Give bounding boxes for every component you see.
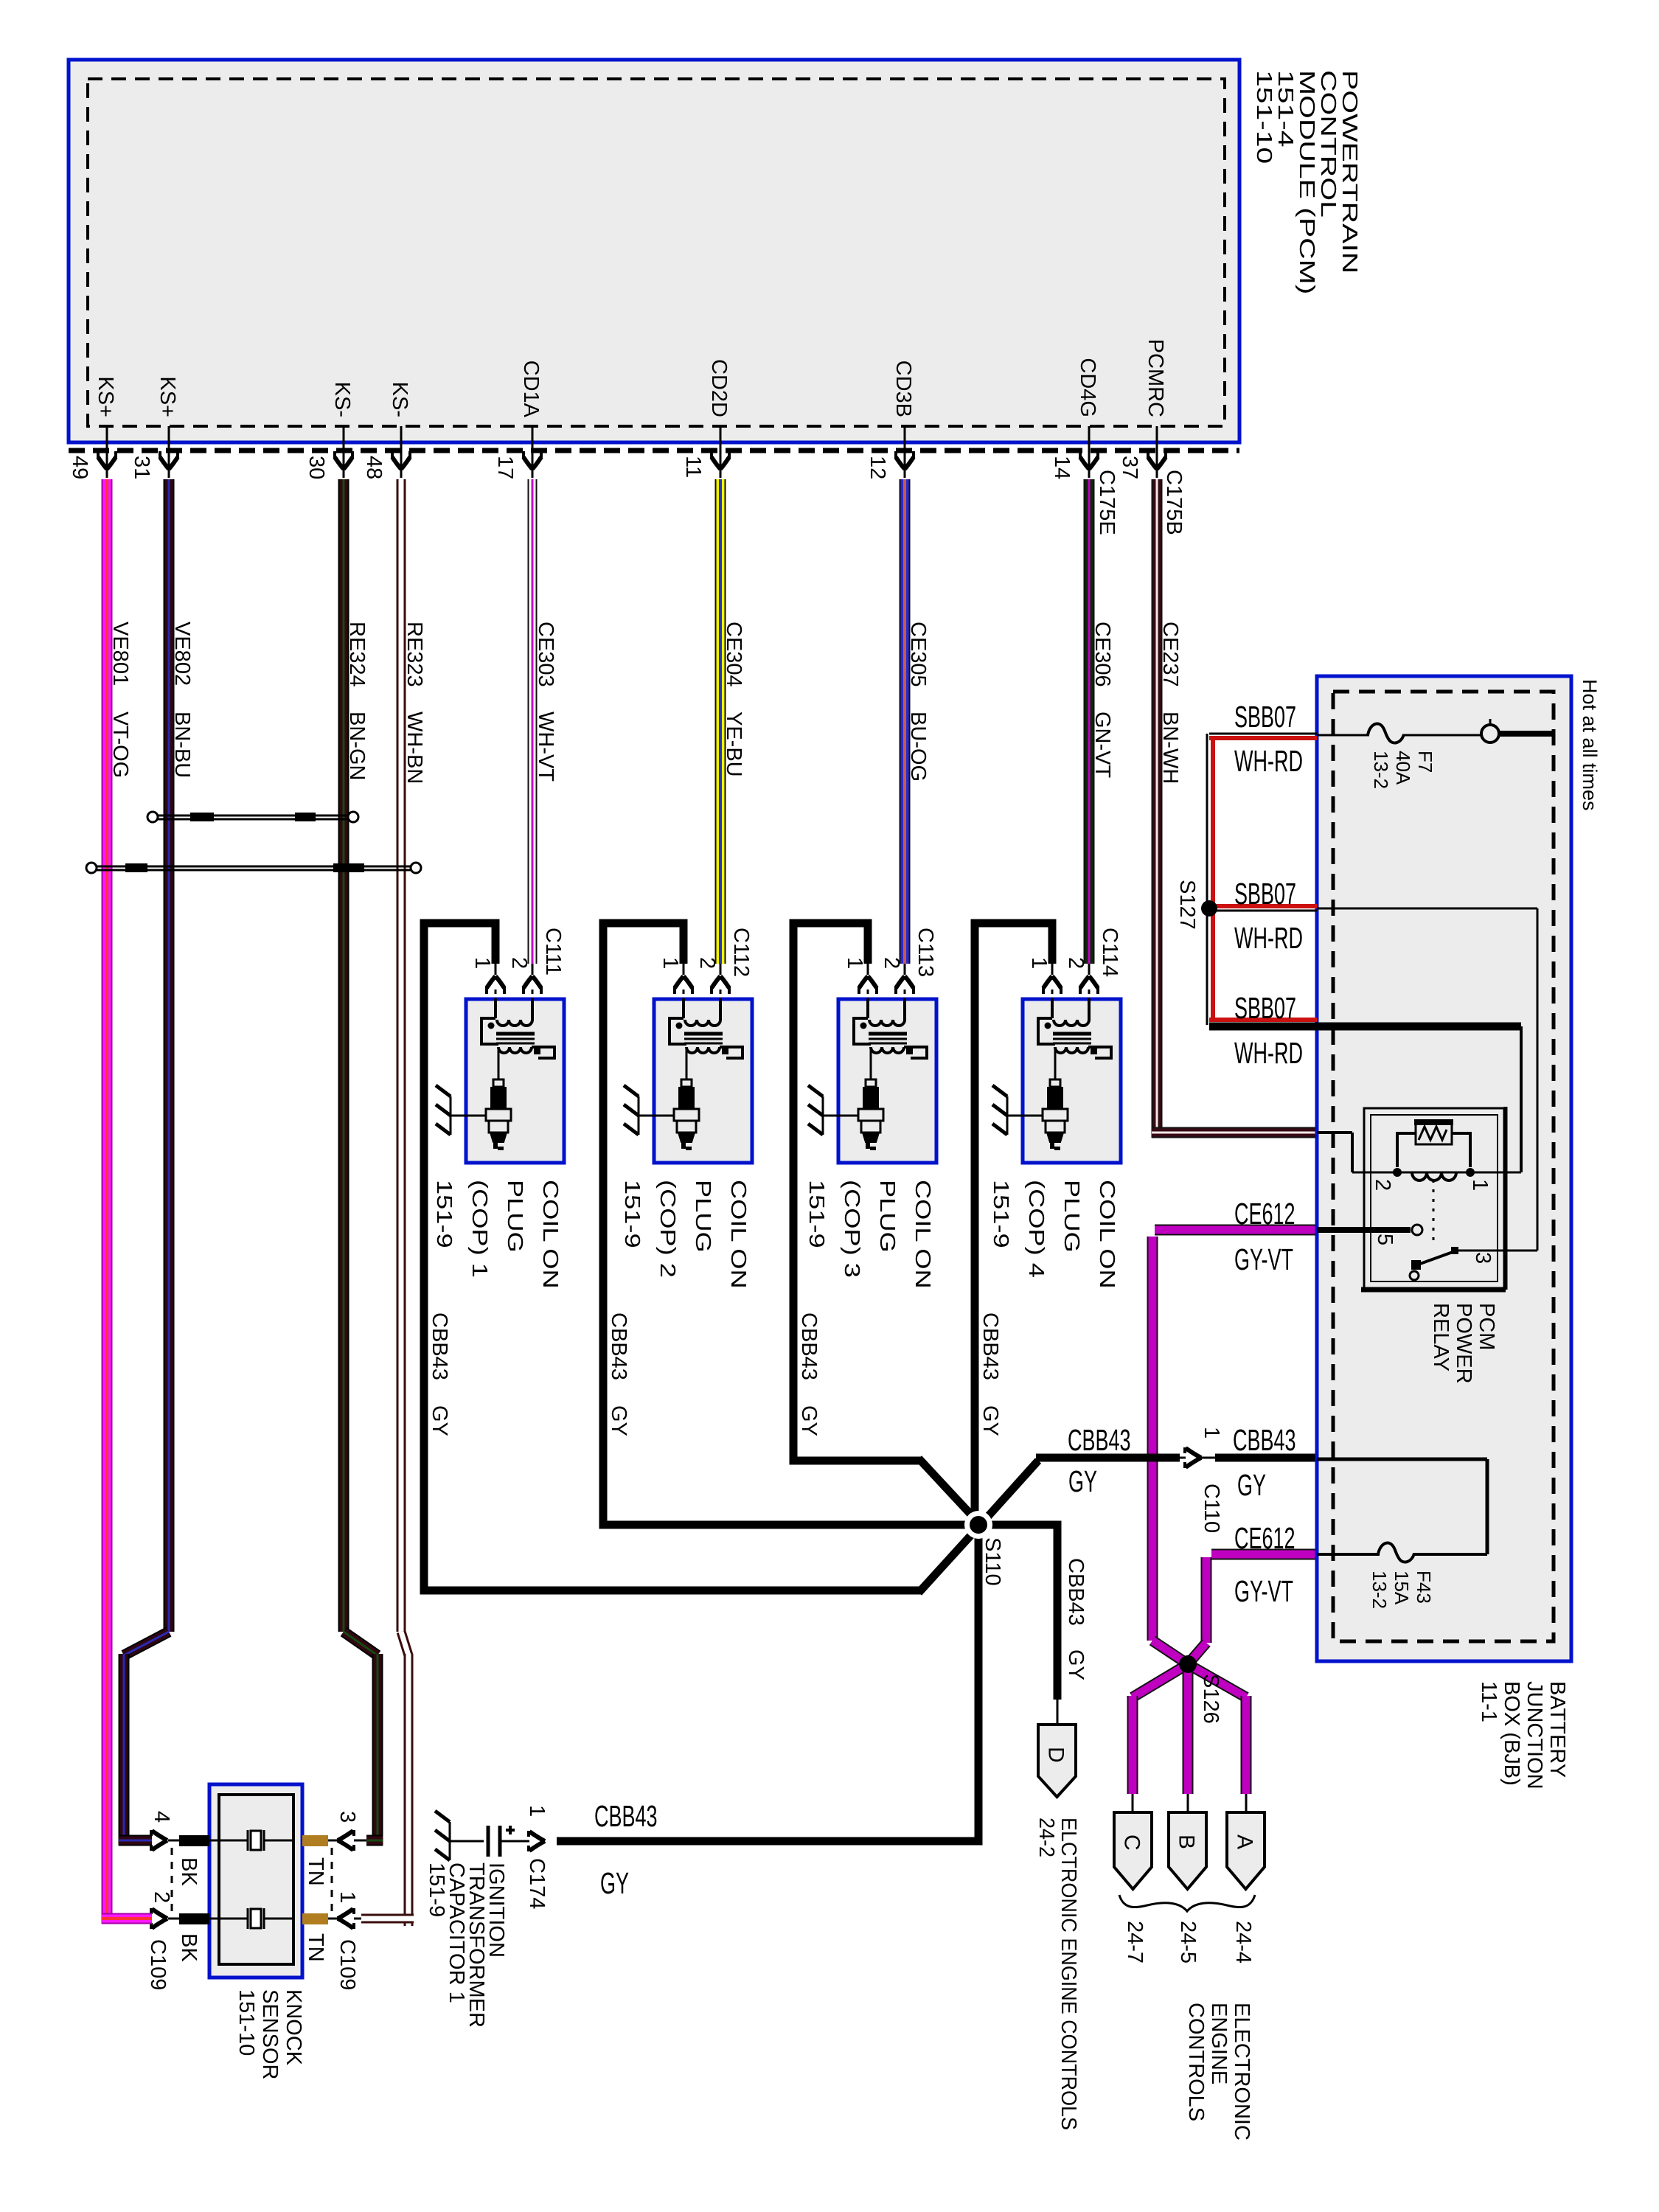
svg-text:GY-VT: GY-VT (1234, 1576, 1293, 1609)
svg-text:24-7: 24-7 (1123, 1921, 1147, 1964)
svg-text:C110: C110 (1200, 1484, 1223, 1533)
svg-text:24-5: 24-5 (1176, 1921, 1200, 1964)
svg-text:12: 12 (866, 456, 889, 479)
svg-text:2: 2 (1371, 1179, 1394, 1191)
svg-text:1: 1 (1200, 1427, 1223, 1439)
svg-text:30: 30 (305, 456, 328, 479)
svg-text:2: 2 (1064, 957, 1088, 969)
svg-text:PLUG: PLUG (876, 1180, 900, 1253)
svg-text:RE323: RE323 (403, 622, 426, 687)
svg-text:PLUG: PLUG (1060, 1180, 1085, 1253)
svg-text:BN-WH: BN-WH (1158, 712, 1182, 784)
svg-text:1: 1 (525, 1805, 549, 1817)
svg-text:PCM: PCM (1475, 1303, 1498, 1350)
svg-text:BN-BU: BN-BU (170, 712, 194, 778)
svg-text:GY-VT: GY-VT (1234, 1244, 1293, 1277)
svg-text:KNOCK: KNOCK (282, 1989, 305, 2066)
svg-text:ELECTRONIC: ELECTRONIC (1230, 2003, 1253, 2140)
svg-text:MODULE (PCM): MODULE (PCM) (1295, 70, 1319, 294)
svg-text:BN-GN: BN-GN (345, 712, 369, 780)
svg-text:TN: TN (304, 1857, 327, 1886)
svg-text:C174: C174 (525, 1858, 549, 1909)
svg-text:PLUG: PLUG (692, 1180, 716, 1253)
svg-text:37: 37 (1118, 456, 1141, 479)
svg-text:CBB43: CBB43 (1233, 1425, 1296, 1458)
svg-text:CONTROL: CONTROL (1316, 70, 1340, 218)
svg-text:CBB43: CBB43 (978, 1312, 1002, 1380)
svg-text:GY: GY (1237, 1470, 1266, 1503)
svg-text:151-9: 151-9 (990, 1180, 1014, 1248)
svg-text:C: C (1120, 1834, 1144, 1851)
svg-text:GY: GY (1064, 1649, 1088, 1680)
svg-text:151-4: 151-4 (1273, 70, 1298, 147)
svg-text:CBB43: CBB43 (428, 1312, 451, 1380)
svg-text:CE305: CE305 (906, 622, 930, 687)
svg-text:BATTERY: BATTERY (1545, 1681, 1569, 1778)
svg-text:SBB07: SBB07 (1234, 701, 1296, 734)
svg-text:1: 1 (658, 957, 682, 969)
svg-text:WH-BN: WH-BN (403, 712, 426, 784)
svg-text:YE-BU: YE-BU (722, 712, 745, 777)
svg-text:ENGINE: ENGINE (1207, 2003, 1231, 2084)
svg-text:BK: BK (177, 1857, 201, 1886)
svg-text:CE303: CE303 (534, 622, 557, 687)
svg-text:14: 14 (1050, 456, 1074, 479)
svg-text:CE612: CE612 (1234, 1198, 1295, 1231)
svg-text:SENSOR: SENSOR (258, 1989, 282, 2079)
svg-text:WH-RD: WH-RD (1234, 922, 1303, 956)
svg-text:GY: GY (600, 1868, 629, 1901)
svg-text:CBB43: CBB43 (594, 1801, 658, 1834)
svg-text:RE324: RE324 (345, 622, 369, 687)
svg-text:17: 17 (493, 456, 517, 479)
svg-text:15A: 15A (1391, 1571, 1413, 1605)
svg-text:RELAY: RELAY (1429, 1303, 1453, 1371)
svg-text:11: 11 (681, 456, 705, 478)
svg-text:CD3B: CD3B (891, 361, 915, 417)
svg-text:48: 48 (362, 456, 386, 479)
svg-text:COIL ON: COIL ON (1096, 1180, 1120, 1289)
svg-text:24-4: 24-4 (1231, 1921, 1255, 1964)
svg-text:GY: GY (978, 1405, 1002, 1436)
svg-text:CBB43: CBB43 (1068, 1425, 1131, 1458)
svg-text:WH-RD: WH-RD (1234, 745, 1303, 779)
svg-text:VT-OG: VT-OG (108, 712, 132, 778)
svg-text:TN: TN (304, 1933, 327, 1962)
svg-text:49: 49 (68, 456, 91, 479)
svg-text:151-9: 151-9 (621, 1180, 645, 1248)
svg-text:CE612: CE612 (1234, 1523, 1295, 1556)
svg-text:151-10: 151-10 (1252, 70, 1276, 164)
svg-text:CD4G: CD4G (1076, 358, 1099, 417)
svg-text:C109: C109 (146, 1939, 170, 1990)
svg-text:5: 5 (1373, 1234, 1397, 1245)
svg-text:VE802: VE802 (170, 622, 194, 686)
svg-text:PLUG: PLUG (504, 1180, 528, 1253)
svg-text:CE304: CE304 (722, 622, 745, 687)
svg-text:(COP) 4: (COP) 4 (1025, 1180, 1049, 1278)
svg-text:A: A (1233, 1834, 1257, 1849)
svg-text:ELCTRONIC ENGINE CONTROLS: ELCTRONIC ENGINE CONTROLS (1057, 1818, 1081, 2130)
svg-text:1: 1 (470, 957, 494, 969)
svg-text:BK: BK (177, 1933, 201, 1962)
svg-text:40A: 40A (1392, 751, 1414, 785)
svg-text:2: 2 (150, 1891, 173, 1903)
svg-text:2: 2 (695, 957, 719, 969)
svg-text:F7: F7 (1414, 751, 1436, 773)
svg-text:BU-OG: BU-OG (906, 712, 930, 782)
svg-text:CD1A: CD1A (519, 361, 543, 418)
svg-text:GN-VT: GN-VT (1091, 712, 1114, 779)
svg-text:C109: C109 (335, 1939, 359, 1990)
svg-text:WH-VT: WH-VT (534, 712, 557, 782)
svg-text:3: 3 (1471, 1252, 1495, 1264)
svg-text:GY: GY (1068, 1466, 1097, 1499)
svg-text:1: 1 (843, 957, 866, 969)
svg-text:CE237: CE237 (1158, 622, 1182, 687)
svg-text:2: 2 (880, 957, 903, 969)
svg-text:B: B (1175, 1834, 1199, 1849)
svg-text:COIL ON: COIL ON (539, 1180, 563, 1289)
svg-text:(COP) 1: (COP) 1 (468, 1180, 493, 1278)
svg-text:PCMRC: PCMRC (1144, 339, 1167, 417)
svg-text:SBB07: SBB07 (1234, 878, 1296, 911)
svg-text:C112: C112 (729, 928, 753, 977)
svg-text:31: 31 (130, 456, 153, 479)
svg-text:151-10: 151-10 (234, 1989, 258, 2056)
svg-text:C175E: C175E (1095, 470, 1119, 535)
svg-text:GY: GY (607, 1405, 630, 1436)
svg-text:151-9: 151-9 (805, 1180, 829, 1248)
svg-text:13-2: 13-2 (1368, 1571, 1391, 1609)
svg-text:JUNCTION: JUNCTION (1523, 1681, 1546, 1790)
svg-text:CBB43: CBB43 (607, 1312, 630, 1380)
svg-text:KS+: KS+ (94, 376, 117, 417)
svg-text:D: D (1044, 1747, 1068, 1763)
svg-text:GY: GY (797, 1405, 821, 1436)
svg-text:C114: C114 (1098, 928, 1121, 977)
svg-text:COIL ON: COIL ON (727, 1180, 751, 1289)
svg-text:KS+: KS+ (156, 376, 179, 417)
svg-text:(COP) 2: (COP) 2 (656, 1180, 681, 1278)
svg-text:KS-: KS- (388, 382, 411, 417)
svg-text:13-2: 13-2 (1370, 751, 1392, 789)
svg-text:Hot at all times: Hot at all times (1579, 679, 1601, 811)
svg-text:4: 4 (150, 1811, 173, 1823)
svg-text:POWERTRAIN: POWERTRAIN (1338, 70, 1362, 274)
svg-text:C113: C113 (914, 928, 937, 977)
svg-text:CONTROLS: CONTROLS (1184, 2003, 1208, 2121)
svg-text:(COP) 3: (COP) 3 (841, 1180, 865, 1278)
svg-text:S127: S127 (1175, 880, 1199, 930)
svg-text:11-1: 11-1 (1477, 1681, 1500, 1722)
svg-text:WH-RD: WH-RD (1234, 1037, 1303, 1071)
svg-text:VE801: VE801 (108, 622, 132, 686)
svg-text:SBB07: SBB07 (1234, 992, 1296, 1026)
svg-text:S110: S110 (981, 1537, 1004, 1586)
svg-text:KS-: KS- (330, 382, 354, 417)
svg-text:CD2D: CD2D (707, 359, 731, 417)
svg-text:CBB43: CBB43 (797, 1312, 821, 1380)
svg-text:C111: C111 (541, 928, 565, 975)
svg-text:1: 1 (1468, 1179, 1492, 1191)
svg-text:2: 2 (507, 957, 531, 969)
svg-text:151-9: 151-9 (433, 1180, 457, 1248)
svg-text:POWER: POWER (1452, 1303, 1475, 1384)
svg-text:1: 1 (1027, 957, 1051, 969)
svg-text:1: 1 (335, 1891, 359, 1903)
svg-text:CBB43: CBB43 (1064, 1558, 1088, 1626)
svg-text:S126: S126 (1199, 1674, 1222, 1724)
svg-text:151-9: 151-9 (425, 1863, 448, 1917)
svg-text:24-2: 24-2 (1035, 1818, 1059, 1857)
svg-text:CE306: CE306 (1091, 622, 1114, 687)
svg-text:COIL ON: COIL ON (911, 1180, 936, 1289)
svg-text:GY: GY (428, 1405, 451, 1436)
svg-text:BOX (BJB): BOX (BJB) (1500, 1681, 1523, 1786)
svg-text:3: 3 (335, 1811, 359, 1823)
svg-text:C175B: C175B (1162, 470, 1186, 535)
svg-text:F43: F43 (1413, 1571, 1435, 1604)
